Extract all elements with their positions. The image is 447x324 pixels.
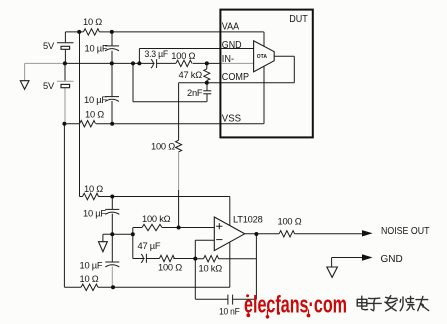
- svg-text:VAA: VAA: [222, 20, 239, 32]
- svg-text:5V: 5V: [43, 41, 55, 51]
- svg-text:100 kΩ: 100 kΩ: [142, 214, 171, 224]
- svg-text:OTA: OTA: [257, 54, 268, 60]
- svg-text:5V: 5V: [43, 81, 55, 91]
- svg-text:LT1028: LT1028: [233, 215, 263, 225]
- svg-text:3.3 µF: 3.3 µF: [145, 49, 169, 59]
- svg-text:10 Ω: 10 Ω: [85, 110, 104, 120]
- svg-text:DUT: DUT: [289, 13, 308, 25]
- svg-text:10 µF: 10 µF: [80, 260, 103, 270]
- svg-text:10 Ω: 10 Ω: [84, 184, 103, 194]
- svg-text:2nF: 2nF: [187, 88, 203, 98]
- svg-text:100 Ω: 100 Ω: [151, 141, 175, 151]
- svg-text:100 Ω: 100 Ω: [171, 51, 195, 61]
- svg-text:COMP: COMP: [222, 71, 249, 83]
- svg-text:VSS: VSS: [222, 113, 241, 125]
- svg-text:GND: GND: [381, 254, 403, 265]
- svg-text:10 µF: 10 µF: [85, 44, 108, 54]
- svg-text:100 Ω: 100 Ω: [158, 263, 182, 273]
- svg-text:10 Ω: 10 Ω: [83, 17, 102, 27]
- svg-text:10 Ω: 10 Ω: [80, 274, 99, 284]
- svg-text:10 kΩ: 10 kΩ: [199, 264, 223, 274]
- svg-text:IN-: IN-: [222, 53, 235, 65]
- svg-text:10 µF: 10 µF: [84, 95, 107, 105]
- svg-text:NOISE OUT: NOISE OUT: [381, 226, 430, 237]
- svg-text:elecfans·com: elecfans·com: [244, 292, 347, 319]
- svg-text:47 µF: 47 µF: [138, 241, 161, 251]
- svg-text:47 kΩ: 47 kΩ: [179, 70, 203, 80]
- svg-text:100 Ω: 100 Ω: [278, 217, 302, 227]
- svg-text:GND: GND: [222, 39, 242, 51]
- svg-text:10 nF: 10 nF: [219, 307, 240, 317]
- svg-text:10 µF: 10 µF: [83, 209, 106, 219]
